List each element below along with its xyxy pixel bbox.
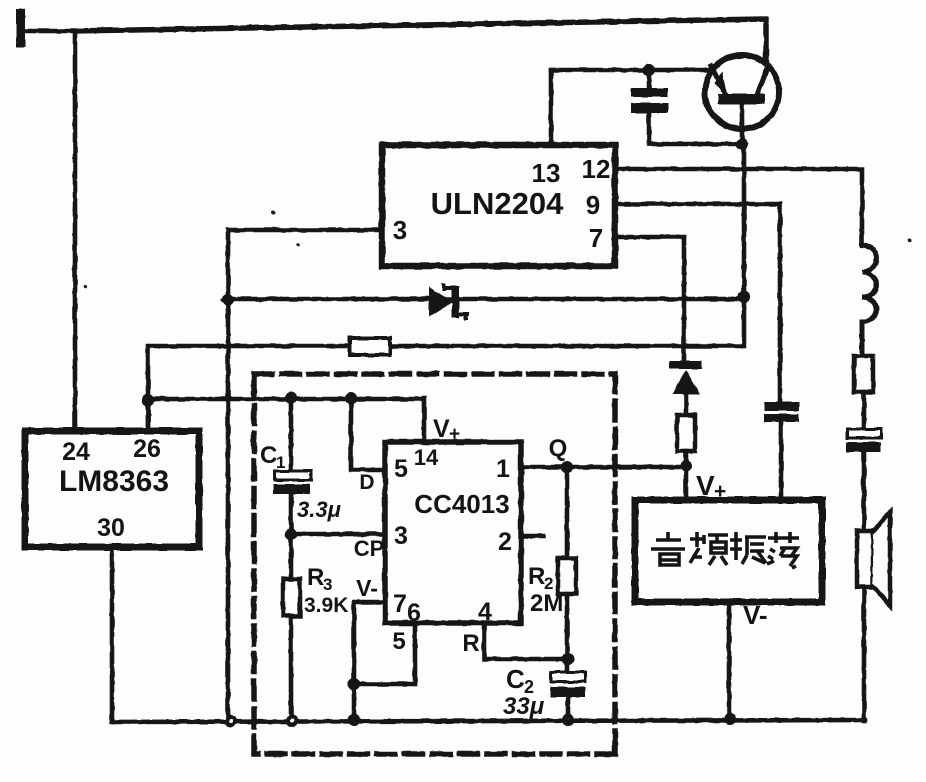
node C2 ground: [562, 714, 574, 726]
node capacitor top: [643, 64, 655, 76]
char pin: [690, 532, 728, 565]
svg-text:Q: Q: [549, 435, 568, 462]
node oscillator ground: [724, 713, 736, 725]
wire ULN pin 3 down left: [228, 230, 382, 721]
wire V- to ground rail: [352, 684, 357, 720]
wire pin 7 down: [615, 237, 684, 362]
node ground at V-: [348, 714, 360, 726]
resistor right branch: [854, 356, 873, 392]
IC U1 ULN2204: [382, 145, 615, 266]
svg-text:R: R: [462, 630, 479, 657]
svg-text:13: 13: [532, 158, 561, 188]
wire collector rail: [551, 68, 712, 73]
node CP junction: [285, 528, 297, 540]
speaker LS: [857, 512, 890, 606]
node D branch: [345, 392, 357, 404]
wire Q output: [521, 465, 686, 470]
svg-text:5: 5: [392, 628, 405, 655]
node V- junction: [348, 678, 360, 690]
svg-text:2M: 2M: [530, 590, 563, 617]
svg-text:3: 3: [323, 575, 332, 594]
wire pin 9 down right: [615, 204, 780, 402]
capacitor C1: [273, 398, 311, 534]
svg-text:3.9K: 3.9K: [304, 594, 348, 617]
svg-text:26: 26: [133, 435, 161, 463]
wire resistor to capacitor: [862, 392, 867, 429]
resistor V+ feed: [677, 415, 695, 451]
svg-text:V: V: [433, 415, 450, 443]
wire pin 12 to inductor: [615, 169, 862, 245]
svg-text:V: V: [696, 470, 715, 501]
svg-text:CC4013: CC4013: [414, 489, 509, 519]
wire base feedback row: [148, 144, 744, 431]
svg-text:C: C: [260, 442, 277, 469]
node base junction: [736, 138, 748, 150]
svg-text:+: +: [449, 424, 460, 445]
wire antenna stub: [25, 29, 73, 34]
svg-text:7: 7: [589, 223, 603, 253]
svg-text:+: +: [714, 480, 726, 503]
resistor AGC feedback: [350, 338, 390, 355]
wire V- network pins 7 and 5: [354, 602, 415, 684]
capacitor coupling to oscillator: [764, 402, 799, 501]
wire V+ rail into CC4013 pin 14: [148, 398, 424, 442]
IC U3 CC4013: [385, 442, 521, 623]
capacitor C2: [550, 672, 585, 720]
svg-text:CP: CP: [354, 536, 385, 561]
svg-text:12: 12: [582, 154, 611, 184]
capacitor right branch: [846, 429, 881, 452]
node V+ rail left: [142, 394, 154, 406]
wire pin 26: [146, 399, 151, 431]
wire resistor to oscillator V+: [684, 451, 689, 501]
transistor Q1: [705, 55, 779, 129]
wire top rail: [73, 19, 766, 62]
char zhen: [730, 532, 766, 564]
wire pin 2 stub: [521, 534, 543, 539]
wire ground rail: [112, 720, 865, 722]
svg-text:D: D: [359, 471, 374, 494]
wire pin 30 to ground rail: [110, 547, 115, 722]
svg-text:R: R: [307, 564, 324, 591]
wire CP input: [291, 532, 385, 537]
node diode wire right: [738, 291, 750, 303]
svg-text:3: 3: [394, 522, 408, 550]
svg-text:V-: V-: [743, 600, 768, 630]
wire pin 4 reset: [484, 623, 568, 659]
wire capacitor bottom to base: [649, 142, 742, 147]
node V+ junction: [680, 460, 692, 472]
scan speck: [908, 238, 912, 242]
antenna electrode: [16, 9, 25, 47]
diode D1 horizontal: [429, 285, 467, 318]
svg-text:R: R: [528, 563, 545, 590]
svg-text:30: 30: [97, 514, 125, 542]
oscillator chinese text 音频振荡: [651, 532, 799, 568]
char yin: [651, 532, 685, 565]
svg-text:1: 1: [496, 455, 510, 483]
svg-text:14: 14: [414, 445, 439, 470]
svg-text:4: 4: [478, 598, 492, 626]
svg-text:6: 6: [407, 599, 421, 627]
wire Q down to R2: [565, 467, 570, 558]
node rail x292: [286, 715, 298, 727]
svg-text:V-: V-: [356, 575, 378, 601]
IC U2 LM8363: [25, 431, 199, 547]
wire oscillator V- to ground: [727, 602, 732, 719]
oscillator module box: [635, 500, 822, 602]
svg-text:1: 1: [276, 453, 285, 472]
svg-text:9: 9: [586, 190, 600, 220]
scan speck: [83, 285, 87, 289]
inductor L1: [862, 245, 877, 356]
svg-text:3.3μ: 3.3μ: [297, 497, 341, 522]
svg-text:33μ: 33μ: [503, 693, 545, 720]
resistor R3: [283, 534, 300, 721]
svg-text:3: 3: [393, 215, 407, 245]
node diode wire tap (diamond): [220, 292, 236, 308]
char dang: [767, 532, 799, 568]
svg-text:24: 24: [62, 438, 90, 466]
svg-text:7: 7: [393, 590, 407, 618]
svg-text:5: 5: [394, 455, 408, 483]
svg-text:C: C: [506, 664, 525, 694]
scan speck: [296, 243, 300, 247]
wire down to ULN2204 pin 13: [549, 70, 554, 145]
svg-text:2: 2: [498, 528, 512, 556]
svg-text:ULN2204: ULN2204: [431, 186, 564, 221]
dashed enclosure: [254, 374, 615, 754]
node C1 top: [285, 392, 297, 404]
svg-text:LM8363: LM8363: [59, 465, 169, 498]
wire transistor base down: [740, 126, 745, 144]
resistor R2: [558, 558, 576, 594]
wire capacitor to speaker and bottom: [862, 452, 867, 721]
node rail x232: [225, 715, 237, 727]
node Q: [561, 461, 573, 473]
wire R2 to C2: [565, 594, 570, 672]
wire antenna down to LM8363 pin 24: [73, 31, 78, 431]
capacitor at transistor base: [631, 69, 668, 144]
wire D input: [351, 398, 385, 470]
wire diode row: [228, 297, 744, 302]
node R junction: [562, 653, 574, 665]
diode D2 vertical: [669, 361, 702, 415]
scan speck: [271, 210, 275, 214]
